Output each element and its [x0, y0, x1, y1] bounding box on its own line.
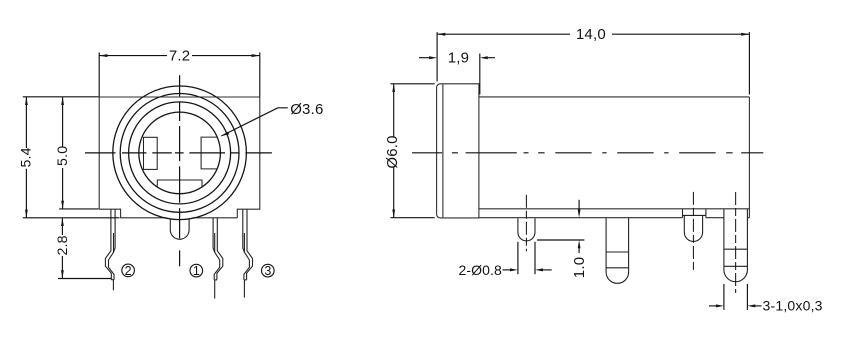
- centerline horizontal front: [85, 152, 272, 154]
- body barrel side: [479, 97, 750, 218]
- centerline vertical front: [179, 75, 181, 266]
- body outline front: [99, 97, 260, 218]
- pin round Ø0.8 second: [683, 209, 706, 241]
- circle barrel step: [120, 93, 239, 212]
- contact window left: [144, 137, 158, 169]
- label circle 2: [122, 264, 135, 278]
- pin flat right 1.0x0.3: [724, 209, 748, 281]
- svg-text:1: 1: [193, 264, 200, 278]
- pin 1 center tab (bullet): [170, 219, 189, 240]
- pin 2 lead: [105, 209, 115, 290]
- contact window right: [201, 137, 217, 169]
- svg-text:14,0: 14,0: [576, 26, 606, 43]
- dimension 2.8: [58, 218, 111, 279]
- circle barrel inner step: [129, 102, 231, 204]
- svg-text:1.0: 1.0: [571, 257, 588, 278]
- base bottom side: [479, 217, 750, 219]
- dimension 5.4: [23, 97, 120, 218]
- svg-text:5.4: 5.4: [18, 147, 34, 167]
- svg-text:2: 2: [125, 264, 132, 278]
- dimension 7.2: [99, 52, 260, 96]
- dimension Ø6.0: [391, 84, 435, 218]
- centerline side view: [412, 152, 763, 154]
- svg-text:3-1,0x0,3: 3-1,0x0,3: [763, 297, 823, 313]
- centerline pin second: [692, 192, 694, 272]
- svg-text:1,9: 1,9: [448, 50, 469, 67]
- label circle 3: [262, 264, 275, 278]
- circle barrel outer Ø6.0: [113, 86, 247, 220]
- pin front shield lead (near 1): [213, 218, 223, 299]
- dimension 1.0: [537, 200, 584, 253]
- flange front disc: [437, 84, 750, 218]
- svg-text:2-Ø0.8: 2-Ø0.8: [458, 262, 502, 278]
- svg-text:3: 3: [264, 264, 271, 278]
- dimension 14,0: [437, 32, 749, 94]
- contact window bottom: [157, 180, 202, 187]
- svg-text:2.8: 2.8: [55, 235, 71, 255]
- dimension 3-1,0x0,3: [709, 284, 762, 310]
- dimension 2-Ø0.8: [503, 242, 552, 274]
- svg-text:Ø6.0: Ø6.0: [384, 135, 401, 168]
- pin 3 lead: [243, 209, 253, 297]
- pin flat middle: [606, 218, 629, 283]
- centerline pin first: [525, 195, 527, 251]
- svg-text:5.0: 5.0: [55, 146, 71, 166]
- svg-text:7.2: 7.2: [169, 47, 190, 64]
- dimension 1,9: [419, 54, 495, 95]
- pin round Ø0.8 first: [518, 218, 535, 241]
- leader Ø3.6: [221, 108, 287, 136]
- svg-text:Ø3.6: Ø3.6: [290, 101, 323, 118]
- circle hole Ø3.6: [139, 112, 221, 194]
- centerline pin right: [735, 192, 737, 293]
- dimension 5.0: [59, 97, 98, 209]
- label circle 1: [190, 264, 203, 278]
